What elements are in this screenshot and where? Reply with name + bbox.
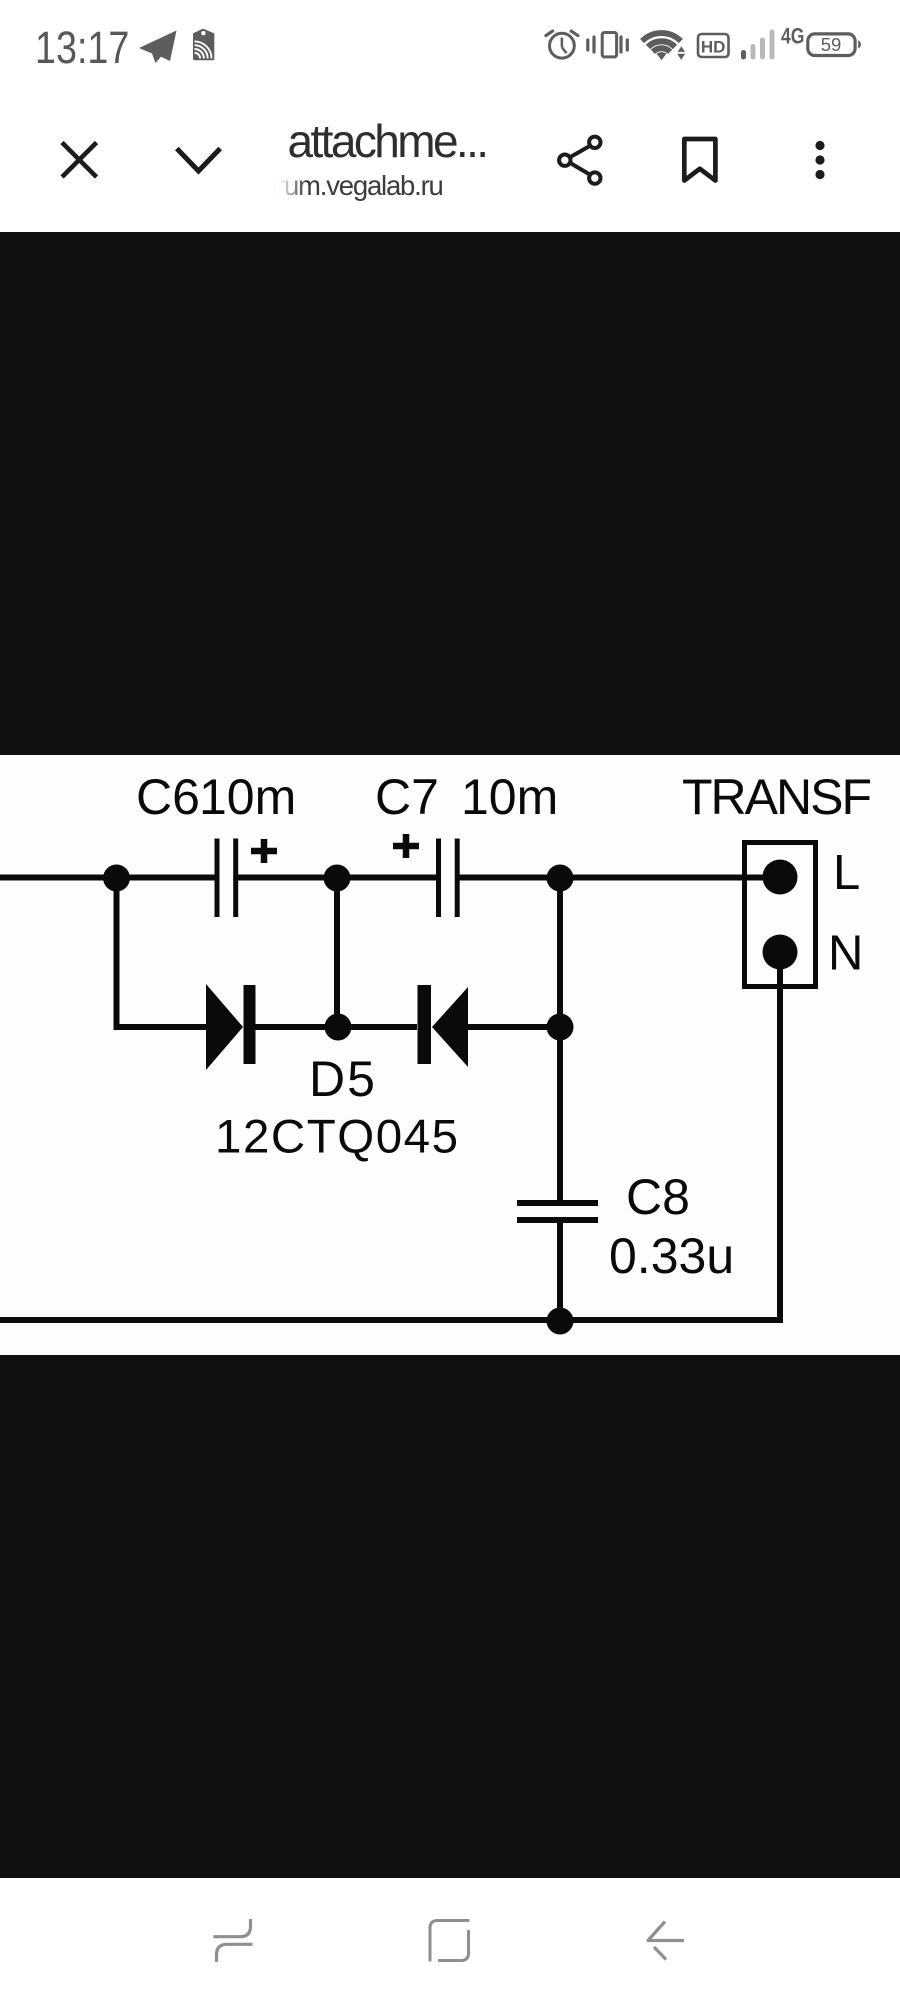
icon signal bars xyxy=(741,30,775,60)
icon wifi xyxy=(642,33,681,52)
svg-text:TRANSF: TRANSF xyxy=(682,769,872,825)
subtitle left fade xyxy=(260,170,305,204)
icon vibrate xyxy=(588,33,628,57)
polarity plus of C6 xyxy=(251,839,277,863)
icon close X xyxy=(62,143,97,178)
icon nav back arrow xyxy=(648,1922,684,1960)
svg-text:L: L xyxy=(833,846,860,900)
icon telegram plane xyxy=(139,31,177,64)
diode D5 second half xyxy=(418,985,469,1067)
svg-text:10m: 10m xyxy=(461,769,558,825)
black viewer area bottom xyxy=(0,1355,900,1878)
svg-text:HD: HD xyxy=(701,38,726,57)
schematic band xyxy=(0,755,900,1355)
svg-text:C7: C7 xyxy=(375,769,439,825)
wire top rail left edge to C6 xyxy=(0,875,215,881)
toolbar xyxy=(0,90,900,232)
icon nav home xyxy=(430,1921,470,1962)
status bar clock text xyxy=(35,25,129,70)
connector TRANSF box xyxy=(745,843,816,987)
svg-text:0.33u: 0.33u xyxy=(609,1228,734,1284)
wire top rail C6 to C7 xyxy=(238,875,436,881)
capacitor C8 xyxy=(517,1203,598,1220)
toolbar subtitle um.vegalab.ru xyxy=(276,172,443,200)
navigation bar xyxy=(0,1878,900,2000)
svg-text:C8: C8 xyxy=(626,1169,690,1225)
svg-text:10m: 10m xyxy=(199,769,296,825)
svg-text:4G: 4G xyxy=(781,25,804,49)
capacitor C6 xyxy=(217,839,236,918)
icon HD badge xyxy=(698,34,729,57)
junction node bottom rail xyxy=(547,1308,574,1335)
status bar right icons xyxy=(530,0,900,90)
icon overflow menu dots xyxy=(815,141,824,179)
junction node top-left xyxy=(103,865,130,892)
junction node top-center xyxy=(324,865,351,892)
wire diode row right segment xyxy=(468,1024,560,1030)
wire left branch vertical xyxy=(114,876,120,1030)
capacitor C7 xyxy=(439,839,458,918)
wire N pin vertical to bottom rail xyxy=(777,968,783,1323)
black viewer area top xyxy=(0,232,900,755)
icon chevron down xyxy=(177,149,220,172)
wire diode row left segment xyxy=(114,1024,208,1030)
svg-text:12CTQ045: 12CTQ045 xyxy=(215,1111,458,1164)
icon nfc tag xyxy=(193,29,214,61)
diode D5 first half xyxy=(206,984,256,1070)
icon share xyxy=(559,137,600,184)
icon alarm clock xyxy=(546,31,578,58)
wire top rail C7 to TRANSF xyxy=(460,875,764,881)
icon battery 59 xyxy=(808,34,861,56)
status bar left icons (telegram, tag) xyxy=(0,0,900,90)
wire center branch vertical xyxy=(334,876,340,1027)
wire diode row middle-right segment xyxy=(337,1024,417,1030)
svg-text:D5: D5 xyxy=(309,1051,377,1107)
svg-text:59: 59 xyxy=(821,34,842,55)
junction node diode row center xyxy=(325,1014,352,1041)
pin N contact xyxy=(763,935,798,970)
wire C8 to bottom rail xyxy=(557,1220,563,1320)
junction node top-right xyxy=(547,865,574,892)
icon nav recents xyxy=(214,1919,253,1962)
wire bottom rail xyxy=(0,1317,780,1323)
pin L contact xyxy=(763,860,798,895)
junction node diode row right xyxy=(547,1014,574,1041)
polarity plus of C7 xyxy=(393,834,419,858)
svg-text:N: N xyxy=(828,927,863,981)
wire right branch vertical to C8 xyxy=(557,876,563,1203)
wire diode row middle-left segment xyxy=(256,1024,338,1030)
svg-text:C6: C6 xyxy=(136,769,200,825)
toolbar title attachme... xyxy=(386,117,388,119)
icon bookmark xyxy=(684,139,715,181)
